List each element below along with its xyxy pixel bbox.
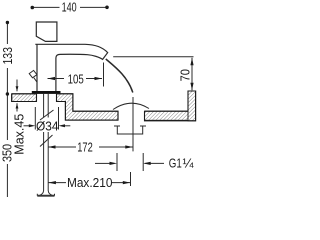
svg-text:G1: G1: [169, 155, 182, 170]
pop-up rod slash: [40, 110, 54, 120]
dimension G1 1/4 ticks and arrows: [116, 153, 118, 171]
svg-text:Max.210: Max.210: [67, 175, 113, 190]
faucet handle: [36, 22, 57, 41]
dimension 140 end dots: [31, 6, 35, 10]
svg-text:172: 172: [77, 139, 93, 154]
svg-text:140: 140: [62, 0, 77, 14]
drain nut bracket: [114, 126, 146, 134]
svg-text:133: 133: [0, 47, 15, 64]
faucet body and spout outline: [35, 44, 107, 91]
lower shelf right part hatched: [145, 111, 189, 120]
counter slab left hatched: [12, 94, 37, 102]
dimension 133/350 vertical line with dots: [6, 23, 8, 45]
dimension 105: [48, 78, 65, 80]
counter slab right + step + lower shelf hatched: [57, 94, 119, 120]
svg-text:Ø34: Ø34: [36, 119, 59, 134]
extension line from spout tip to right: [113, 56, 193, 58]
dimension Max.45 arrows: [16, 80, 18, 92]
supply pipe: [43, 94, 45, 118]
svg-text:70: 70: [178, 69, 193, 82]
dimension O34 extension lines: [34, 107, 36, 130]
pop-up knob (tilted square) on body: [29, 70, 37, 81]
counter outlines: [12, 91, 196, 121]
dimension 172: [48, 146, 76, 148]
svg-text:¼: ¼: [183, 155, 195, 170]
dimension Max.210: [48, 182, 66, 184]
water stream arc: [106, 59, 133, 93]
dimension 70 vertical: [191, 58, 193, 90]
svg-text:105: 105: [68, 71, 84, 86]
right upturn hatched: [188, 91, 196, 121]
pipe base flare: [37, 191, 54, 196]
dimension O34 arrows: [24, 125, 31, 127]
basin pop-up flange arc: [113, 103, 149, 109]
svg-text:Max.45: Max.45: [11, 114, 26, 155]
dimension 140 line: [32, 6, 59, 8]
faucet base flange (dark): [32, 91, 61, 94]
extension line below spout tip: [103, 63, 105, 87]
drain centerline: [132, 97, 134, 151]
